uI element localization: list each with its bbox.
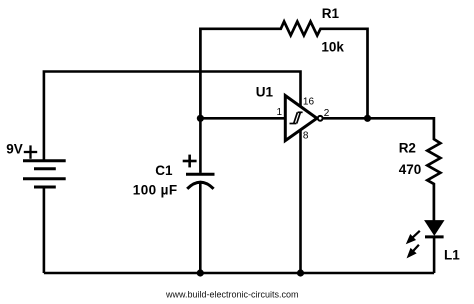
svg-text:2: 2 [324, 108, 330, 119]
svg-text:www.build-electronic-circuits.: www.build-electronic-circuits.com [165, 290, 299, 300]
svg-text:16: 16 [303, 96, 315, 107]
svg-text:C1: C1 [155, 163, 173, 178]
svg-text:L1: L1 [444, 247, 460, 262]
svg-text:100 µF: 100 µF [133, 183, 178, 198]
svg-text:470: 470 [399, 162, 422, 177]
svg-text:1: 1 [276, 107, 282, 118]
svg-text:R1: R1 [322, 6, 340, 21]
svg-text:10k: 10k [321, 40, 344, 55]
svg-text:U1: U1 [256, 85, 274, 100]
svg-text:9V: 9V [6, 142, 23, 157]
svg-text:R2: R2 [399, 140, 416, 155]
svg-text:8: 8 [303, 131, 309, 142]
